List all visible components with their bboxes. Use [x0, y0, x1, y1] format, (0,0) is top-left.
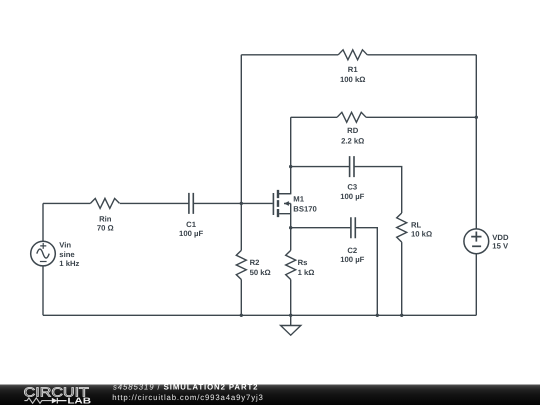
svg-text:50 kΩ: 50 kΩ	[250, 268, 271, 277]
wire left vertical R1 to gate node	[240, 55, 242, 204]
capacitor C1	[189, 193, 193, 214]
logo diode	[52, 398, 58, 404]
svg-text:R1: R1	[348, 65, 359, 74]
svg-text:sine: sine	[59, 250, 75, 259]
wire RD right	[366, 116, 476, 118]
node gate junction	[240, 202, 243, 205]
node C3 junction	[289, 165, 292, 168]
resistor Rin	[90, 198, 119, 208]
wire Rin to C1	[120, 202, 189, 204]
wire Vin bottom lead	[42, 266, 44, 315]
svg-text:2.2 kΩ: 2.2 kΩ	[341, 136, 364, 145]
svg-text:C1: C1	[186, 220, 197, 229]
resistor Rs	[286, 250, 296, 279]
svg-text:1 kΩ: 1 kΩ	[298, 268, 315, 277]
svg-text:100 kΩ: 100 kΩ	[340, 75, 365, 84]
ground	[281, 315, 301, 335]
node C2 rail junction	[376, 314, 379, 317]
wire source node to C2	[291, 227, 351, 229]
node source junction	[289, 226, 292, 229]
wire top rail left of R1	[241, 54, 338, 56]
svg-text:RL: RL	[411, 220, 422, 229]
node drain-RD junction	[475, 116, 478, 119]
wire C2 right down to rail	[356, 228, 378, 316]
svg-text:100 µF: 100 µF	[179, 229, 203, 238]
svg-text:1 kHz: 1 kHz	[59, 259, 79, 268]
wire VDD to bottom rail	[475, 254, 477, 316]
svg-text:Vin: Vin	[59, 241, 71, 250]
wire bottom rail	[43, 314, 476, 316]
svg-text:RD: RD	[347, 126, 359, 135]
voltage source VDD	[464, 229, 489, 254]
wire C1 to gate node	[193, 202, 241, 204]
capacitor C3	[350, 156, 354, 177]
wire Vin top lead	[42, 203, 44, 241]
svg-text:s4585319 / SIMULATION2 PART2: s4585319 / SIMULATION2 PART2	[113, 382, 258, 391]
wire RD left	[291, 116, 337, 118]
svg-text:LAB: LAB	[67, 395, 91, 405]
wire drain vertical	[279, 117, 291, 193]
svg-text:Rs: Rs	[298, 258, 308, 267]
wire gate node to M1 gate	[241, 202, 272, 204]
svg-text:70 Ω: 70 Ω	[97, 223, 114, 232]
svg-text:R2: R2	[250, 258, 260, 267]
node R2 rail junction	[240, 314, 243, 317]
transistor M1	[273, 190, 290, 228]
resistor RL	[397, 213, 407, 242]
wire top rail right of R1	[367, 54, 476, 56]
svg-text:100 µF: 100 µF	[340, 192, 364, 201]
svg-text:100 µF: 100 µF	[340, 255, 364, 264]
wire Rs to bottom rail	[290, 280, 292, 316]
svg-text:C2: C2	[347, 246, 357, 255]
wire gate node down to R2	[240, 203, 242, 250]
resistor R2	[236, 250, 246, 279]
logo resistor zigzag	[24, 398, 51, 403]
wire input top from Vin to Rin	[43, 202, 90, 204]
wire RL to bottom rail	[401, 242, 403, 315]
wire C3 left	[291, 166, 349, 168]
svg-text:C3: C3	[347, 182, 357, 191]
svg-text:Rin: Rin	[99, 214, 112, 223]
wire C3 right to RL top	[355, 167, 402, 213]
svg-text:M1: M1	[293, 195, 304, 204]
resistor RD	[337, 112, 366, 122]
svg-text:15 V: 15 V	[492, 241, 509, 250]
node ground rail junction	[289, 314, 292, 317]
wire R2 to bottom rail	[240, 280, 242, 316]
node RL rail junction	[400, 314, 403, 317]
svg-text:http://circuitlab.com/c993a4a9: http://circuitlab.com/c993a4a9y7yj3	[112, 393, 264, 402]
svg-text:10 kΩ: 10 kΩ	[411, 230, 432, 239]
svg-text:BS170: BS170	[293, 204, 317, 213]
wire right vertical to VDD	[475, 55, 477, 229]
capacitor C2	[351, 217, 355, 238]
wire source node to Rs	[290, 228, 292, 251]
voltage source Vin	[31, 241, 56, 266]
resistor R1	[338, 50, 367, 60]
